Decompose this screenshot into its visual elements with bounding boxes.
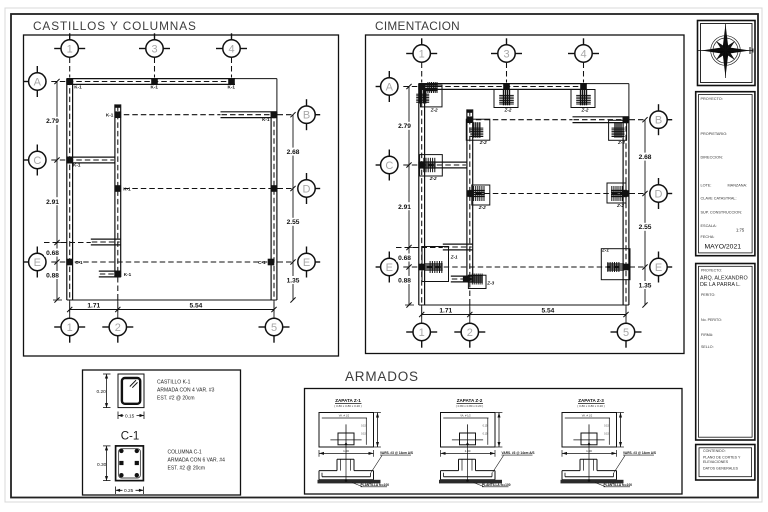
svg-text:K-1: K-1: [106, 113, 114, 118]
svg-text:PROPIETARIO:: PROPIETARIO:: [701, 132, 728, 136]
svg-text:ARMADA CON 4 VAR. #3: ARMADA CON 4 VAR. #3: [157, 388, 215, 394]
svg-text:E: E: [303, 257, 310, 269]
svg-text:Z-2: Z-2: [478, 205, 486, 210]
svg-text:2: 2: [467, 327, 473, 339]
svg-text:1: 1: [419, 48, 425, 60]
svg-text:CIMENTACION: CIMENTACION: [375, 19, 460, 33]
svg-text:5: 5: [271, 322, 277, 334]
svg-text:( 0.80 x 0.80 x 0.20 ): ( 0.80 x 0.80 x 0.20 ): [456, 404, 484, 408]
svg-text:1.71: 1.71: [439, 308, 452, 315]
svg-text:CONTENIDO:: CONTENIDO:: [703, 449, 726, 453]
svg-text:5: 5: [623, 327, 629, 339]
svg-text:C-1: C-1: [121, 431, 140, 443]
svg-text:( 0.80 x 0.80 x 0.20 ): ( 0.80 x 0.80 x 0.20 ): [577, 404, 605, 408]
svg-text:MANZANA:: MANZANA:: [728, 184, 748, 188]
svg-text:0.88: 0.88: [398, 278, 411, 285]
svg-text:1: 1: [67, 322, 73, 334]
svg-text:FECHA:: FECHA:: [701, 235, 715, 239]
svg-text:CASTILLO K-1: CASTILLO K-1: [157, 380, 191, 386]
svg-text:K-1: K-1: [151, 84, 159, 89]
svg-text:( 0.80 x 0.80 x 0.20 ): ( 0.80 x 0.80 x 0.20 ): [334, 404, 362, 408]
svg-text:0.15: 0.15: [361, 425, 366, 428]
svg-text:0.88: 0.88: [46, 273, 59, 280]
svg-text:A: A: [34, 76, 42, 88]
svg-text:0.15: 0.15: [604, 433, 609, 436]
svg-text:VARS. #3 @ 14cm A/S: VARS. #3 @ 14cm A/S: [623, 451, 656, 455]
svg-text:2.79: 2.79: [46, 118, 59, 125]
svg-text:VA. # 1/2: VA. # 1/2: [460, 414, 471, 418]
svg-text:ELEVACIONES: ELEVACIONES: [703, 460, 729, 464]
svg-text:2.68: 2.68: [287, 149, 300, 156]
svg-text:Z-3: Z-3: [486, 281, 494, 286]
svg-text:C-1: C-1: [75, 260, 83, 265]
svg-text:Z-1: Z-1: [450, 255, 458, 260]
svg-text:2.79: 2.79: [398, 123, 411, 130]
svg-text:K-1: K-1: [74, 84, 82, 89]
svg-text:1.35: 1.35: [287, 278, 300, 285]
svg-text:D: D: [303, 183, 311, 195]
svg-text:4: 4: [228, 43, 234, 55]
svg-text:PERITO:: PERITO:: [701, 293, 715, 297]
svg-text:5.54: 5.54: [189, 303, 202, 310]
svg-text:LOTE:: LOTE:: [701, 184, 712, 188]
svg-text:COLUMNA C-1: COLUMNA C-1: [168, 450, 202, 456]
svg-text:VA. # 1/2: VA. # 1/2: [339, 414, 350, 418]
svg-text:1.35: 1.35: [639, 283, 652, 290]
svg-text:0.15: 0.15: [483, 425, 488, 428]
svg-text:DATOS GENERALES: DATOS GENERALES: [703, 467, 739, 471]
svg-text:2.55: 2.55: [287, 219, 300, 226]
svg-text:PLANTILLA fc=100: PLANTILLA fc=100: [482, 483, 511, 487]
svg-text:Z-2: Z-2: [479, 140, 487, 145]
svg-text:DIRECCION:: DIRECCION:: [701, 156, 723, 160]
svg-text:D: D: [655, 188, 663, 200]
svg-text:ZAPATA Z-2: ZAPATA Z-2: [457, 398, 483, 403]
svg-text:2.55: 2.55: [639, 224, 652, 231]
svg-text:0.15: 0.15: [604, 425, 609, 428]
svg-text:Z-2: Z-2: [616, 203, 624, 208]
svg-text:0.30: 0.30: [97, 462, 107, 468]
svg-text:DE LA PARRA L.: DE LA PARRA L.: [700, 282, 741, 288]
svg-text:PLANTILLA fc=100: PLANTILLA fc=100: [604, 483, 633, 487]
svg-text:K-1: K-1: [123, 187, 131, 192]
svg-text:2.91: 2.91: [398, 204, 411, 211]
svg-text:ARQ. ALEXANDRO: ARQ. ALEXANDRO: [700, 276, 748, 282]
svg-text:C-1: C-1: [258, 260, 266, 265]
svg-text:Z-2: Z-2: [581, 108, 589, 113]
svg-text:CLAVE CATASTRAL:: CLAVE CATASTRAL:: [701, 197, 737, 201]
svg-text:0.15: 0.15: [125, 413, 135, 419]
svg-text:0.15: 0.15: [361, 433, 366, 436]
svg-text:Z-2: Z-2: [617, 140, 625, 145]
svg-text:1: 1: [419, 327, 425, 339]
svg-text:Z-2: Z-2: [429, 176, 437, 181]
svg-text:ZAPATA Z-1: ZAPATA Z-1: [335, 398, 361, 403]
svg-text:3: 3: [503, 48, 509, 60]
svg-text:ESCALA:: ESCALA:: [701, 224, 717, 228]
svg-text:ARMADA CON 6 VAR. #4: ARMADA CON 6 VAR. #4: [168, 458, 226, 464]
svg-text:A: A: [386, 81, 394, 93]
svg-text:K-1: K-1: [73, 163, 81, 168]
svg-text:No. PERITO:: No. PERITO:: [701, 318, 722, 322]
svg-text:E: E: [655, 262, 662, 274]
svg-text:B: B: [655, 115, 662, 127]
svg-text:Z-1: Z-1: [601, 248, 609, 253]
svg-text:K-1: K-1: [124, 272, 132, 277]
svg-text:VARS. #3 @ 14cm A/S: VARS. #3 @ 14cm A/S: [380, 451, 413, 455]
svg-text:PLANTILLA fc=100: PLANTILLA fc=100: [361, 483, 390, 487]
svg-text:VARS. #3 @ 14cm A/S: VARS. #3 @ 14cm A/S: [502, 451, 535, 455]
svg-text:K-1: K-1: [262, 117, 270, 122]
svg-text:1: 1: [67, 43, 73, 55]
svg-text:MAYO/2021: MAYO/2021: [705, 244, 742, 251]
svg-text:0.25: 0.25: [124, 488, 134, 494]
svg-text:EST. #2 @ 20cm: EST. #2 @ 20cm: [157, 396, 195, 402]
svg-text:1:75: 1:75: [736, 228, 745, 233]
svg-text:4: 4: [580, 48, 586, 60]
svg-text:0.68: 0.68: [398, 255, 411, 262]
svg-text:PROYECTO:: PROYECTO:: [701, 269, 722, 273]
svg-text:K-1: K-1: [228, 84, 236, 89]
svg-text:CASTILLOS Y COLUMNAS: CASTILLOS Y COLUMNAS: [33, 19, 197, 33]
svg-text:1.71: 1.71: [87, 303, 100, 310]
svg-text:2: 2: [115, 322, 121, 334]
svg-text:0.15: 0.15: [483, 433, 488, 436]
svg-text:C: C: [385, 160, 393, 172]
svg-text:SUP. CONSTRUCCION:: SUP. CONSTRUCCION:: [701, 211, 743, 215]
svg-text:0.20: 0.20: [97, 389, 107, 395]
svg-text:5.54: 5.54: [541, 308, 554, 315]
svg-text:0.68: 0.68: [46, 250, 59, 257]
svg-text:Z-2: Z-2: [504, 108, 512, 113]
svg-text:FIRMA:: FIRMA:: [701, 333, 713, 337]
svg-text:Z-2: Z-2: [430, 108, 438, 113]
svg-text:3: 3: [151, 43, 157, 55]
svg-text:B: B: [303, 110, 310, 122]
svg-text:VA. # 1/2: VA. # 1/2: [582, 414, 593, 418]
svg-text:2.68: 2.68: [639, 154, 652, 161]
svg-text:PROYECTO:: PROYECTO:: [701, 97, 723, 101]
svg-text:SELLO:: SELLO:: [701, 345, 714, 349]
svg-text:2.91: 2.91: [46, 199, 59, 206]
svg-text:E: E: [386, 262, 393, 274]
svg-text:EST. #2 @ 20cm: EST. #2 @ 20cm: [168, 466, 206, 472]
svg-text:ZAPATA Z-3: ZAPATA Z-3: [578, 398, 604, 403]
svg-text:C: C: [33, 155, 41, 167]
svg-text:E: E: [34, 257, 41, 269]
svg-text:ARMADOS: ARMADOS: [345, 369, 419, 384]
